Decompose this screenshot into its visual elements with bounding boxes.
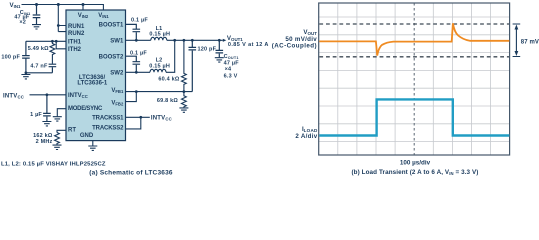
ground (COUT) [215, 58, 224, 62]
svg-text:×4: ×4 [225, 67, 232, 73]
svg-text:0.15 µH: 0.15 µH [149, 32, 170, 38]
capacitor 120pF [189, 40, 197, 91]
svg-text:×2: ×2 [19, 20, 26, 26]
capacitor CIN1 [33, 5, 41, 25]
wire GND pin [92, 141, 94, 146]
svg-text:RUN2: RUN2 [68, 31, 85, 37]
svg-text:6.3 V: 6.3 V [224, 73, 238, 79]
svg-text:INTVCC: INTVCC [3, 93, 24, 99]
node junction dots on VIN rail [35, 3, 38, 6]
svg-text:47 µF: 47 µF [224, 60, 240, 66]
ground (GND pin) [88, 146, 97, 150]
svg-text:RUN1: RUN1 [68, 24, 85, 30]
ground (MODE/SYNC) [53, 117, 62, 121]
svg-text:ITH1: ITH1 [68, 40, 82, 46]
svg-text:(b) Load Transient (2 A to 6 A: (b) Load Transient (2 A to 6 A, VIN = 3.… [351, 169, 478, 176]
svg-text:87 mV: 87 mV [521, 40, 539, 46]
trace VOUT (orange) [319, 23, 509, 55]
svg-text:1 µF: 1 µF [30, 112, 42, 118]
wire ITH2 [56, 41, 66, 49]
svg-text:INTVCC: INTVCC [68, 93, 88, 99]
capacitor 100pF [22, 41, 30, 73]
svg-text:0.1 µF: 0.1 µF [130, 51, 147, 57]
wire MODE/SYNC to ground [57, 109, 66, 117]
capacitor 0.1uF boost2 [126, 56, 141, 72]
wire VIN1 top rail [22, 5, 104, 11]
scope grid [319, 3, 510, 155]
svg-text:60.4 kΩ: 60.4 kΩ [158, 77, 179, 83]
svg-text:0.85 V at 12 A: 0.85 V at 12 A [228, 42, 269, 48]
resistor 69.8k [182, 92, 187, 108]
svg-text:VIN1: VIN1 [10, 2, 22, 9]
svg-text:2 MHz: 2 MHz [36, 139, 53, 145]
svg-text:GND: GND [80, 133, 94, 139]
op IC box LTC3636 [66, 10, 126, 141]
svg-text:VFB2: VFB2 [111, 100, 124, 106]
svg-text:100 µs/div: 100 µs/div [400, 159, 431, 166]
svg-text:(a) Schematic of LTC3636: (a) Schematic of LTC3636 [89, 170, 173, 177]
dashed limit lines [319, 23, 509, 25]
wire INTVCC [30, 94, 67, 96]
svg-text:VIN1: VIN1 [98, 13, 109, 19]
ground (69.8k) [179, 108, 188, 112]
svg-text:LTC3636-1: LTC3636-1 [77, 81, 108, 87]
wire comp network bottom [26, 72, 53, 74]
wire RT [57, 130, 66, 132]
svg-text:5.49 kΩ: 5.49 kΩ [28, 46, 49, 52]
svg-text:BOOST1: BOOST1 [99, 22, 124, 28]
inductor L1 [151, 37, 167, 40]
svg-text:0.1 µF: 0.1 µF [131, 18, 148, 24]
svg-text:100 pF: 100 pF [1, 55, 20, 61]
svg-text:SW2: SW2 [110, 71, 124, 77]
svg-text:69.8 kΩ: 69.8 kΩ [157, 98, 178, 104]
svg-text:BOOST2: BOOST2 [99, 55, 124, 61]
wire TRACKSS tie [126, 117, 150, 129]
svg-text:VFB1: VFB1 [111, 88, 124, 94]
svg-text:SW1: SW1 [110, 38, 124, 44]
resistor 162k RT [55, 133, 60, 145]
capacitor COUT [216, 40, 224, 57]
svg-text:2 A/div: 2 A/div [295, 133, 317, 140]
capacitor 0.1uF boost1 [126, 24, 141, 40]
svg-text:ITH2: ITH2 [68, 47, 82, 53]
svg-text:4.7 nF: 4.7 nF [30, 64, 48, 70]
svg-text:0.15 µH: 0.15 µH [149, 64, 170, 70]
wire RUN1/RUN2 tie to VIN [58, 5, 66, 32]
wire VFB node [126, 91, 193, 93]
svg-text:VIN2: VIN2 [78, 13, 89, 19]
capacitor 4.7nF [49, 64, 57, 73]
wire VFB2 [126, 92, 137, 102]
svg-text:120 pF: 120 pF [198, 47, 217, 53]
trace ILOAD (blue) [319, 99, 509, 135]
svg-text:L1, L2: 0.15 µF VISHAY IHLP252: L1, L2: 0.15 µF VISHAY IHLP2525CZ [1, 161, 106, 167]
svg-text:TRACKSS1: TRACKSS1 [92, 115, 124, 121]
wire SW2 [126, 40, 175, 72]
resistor 60.4k [182, 40, 187, 91]
wire VIN2 pin drop [82, 5, 84, 11]
svg-text:INTVCC: INTVCC [151, 115, 172, 121]
svg-text:COUT1: COUT1 [224, 54, 239, 60]
svg-text:(AC-Coupled): (AC-Coupled) [272, 43, 317, 50]
svg-text:MODE/SYNC: MODE/SYNC [68, 106, 103, 112]
inductor L2 [150, 69, 166, 72]
node dots on output rail [173, 39, 176, 42]
capacitor 1uF [43, 95, 51, 121]
wire ITH1 [26, 40, 66, 42]
scope center dashed vertical [413, 3, 415, 155]
resistor 5.49k [50, 41, 55, 64]
annotation 87mV bracket [513, 24, 521, 57]
ground (CIN1) [32, 25, 41, 29]
scope frame [319, 3, 510, 155]
wire SW1 / output rail [126, 39, 223, 41]
node VOUT arrow [223, 39, 227, 42]
svg-text:RT: RT [68, 127, 76, 133]
ground (1uF) [42, 122, 51, 126]
ground (RT) [53, 145, 62, 149]
svg-text:TRACKSS2: TRACKSS2 [92, 126, 124, 132]
ground (comp) [21, 75, 30, 79]
